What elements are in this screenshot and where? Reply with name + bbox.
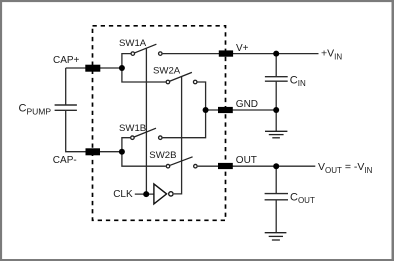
svg-text:CLK: CLK <box>113 189 133 200</box>
switch SW1B <box>131 128 162 139</box>
svg-text:V+: V+ <box>236 43 249 54</box>
wire GND rail pin to CIN column <box>206 109 277 111</box>
wire CAP+ junction down to SW2A <box>122 68 166 82</box>
svg-text:OUT: OUT <box>236 155 257 166</box>
wire SW2A right to GND junction <box>198 82 206 110</box>
pin GND <box>218 107 233 113</box>
ground under COUT <box>265 233 287 240</box>
svg-text:SW1A: SW1A <box>119 38 147 49</box>
pin CAP- <box>86 148 101 155</box>
pin CAP+ <box>85 65 100 72</box>
wire COUT top connection <box>275 166 277 193</box>
node OUT / COUT junction <box>273 163 279 169</box>
switch SW1A <box>131 44 162 55</box>
wire CIN top connection <box>275 54 277 77</box>
wire CLK input <box>135 193 154 195</box>
node +VIN / CIN junction <box>273 51 279 57</box>
svg-text:GND: GND <box>236 99 258 110</box>
switch SW2B <box>166 157 197 168</box>
svg-text:CAP-: CAP- <box>53 155 77 166</box>
pin OUT <box>218 163 233 169</box>
wire CIN bottom to GND rail and ground <box>275 81 277 131</box>
capacitor COUT <box>265 194 288 200</box>
capacitor CPUMP <box>55 105 77 110</box>
wire inverter output phase2 control line <box>174 77 182 194</box>
wire CAP- junction up to SW1B <box>122 138 130 152</box>
wire SW1B right up to GND junction <box>163 110 206 138</box>
node CAP+ junction <box>119 65 125 71</box>
node CAP- junction <box>119 149 125 155</box>
wire CAP- rail (CPUMP corner to pin) <box>66 110 122 151</box>
wire CAP+ junction up to SW1A <box>122 54 131 68</box>
node CLK junction <box>143 191 149 197</box>
wire CAP+ rail (pin to CPUMP corner) <box>66 68 122 105</box>
node GND / CIN junction <box>273 107 279 113</box>
svg-text:SW1B: SW1B <box>119 123 146 134</box>
pin V+ <box>219 50 233 56</box>
IC boundary dashed box <box>93 26 226 221</box>
svg-text:SW2B: SW2B <box>149 150 176 161</box>
wire SW2B right to OUT pin and rail to VOUT <box>198 165 316 167</box>
svg-text:SW2A: SW2A <box>153 66 181 77</box>
capacitor CIN <box>265 77 288 82</box>
wire COUT bottom to ground <box>275 200 277 233</box>
ground under CIN <box>265 131 287 138</box>
wire CAP- junction down to SW2B <box>122 152 166 167</box>
node GND inner junction <box>203 107 209 113</box>
switch SW2A <box>166 72 197 83</box>
wire clock phase1 control line <box>145 48 147 194</box>
svg-text:CAP+: CAP+ <box>53 55 80 66</box>
wire SW1A to V+ pin and rail to +VIN <box>163 53 319 55</box>
inverter clock driver <box>154 184 173 204</box>
